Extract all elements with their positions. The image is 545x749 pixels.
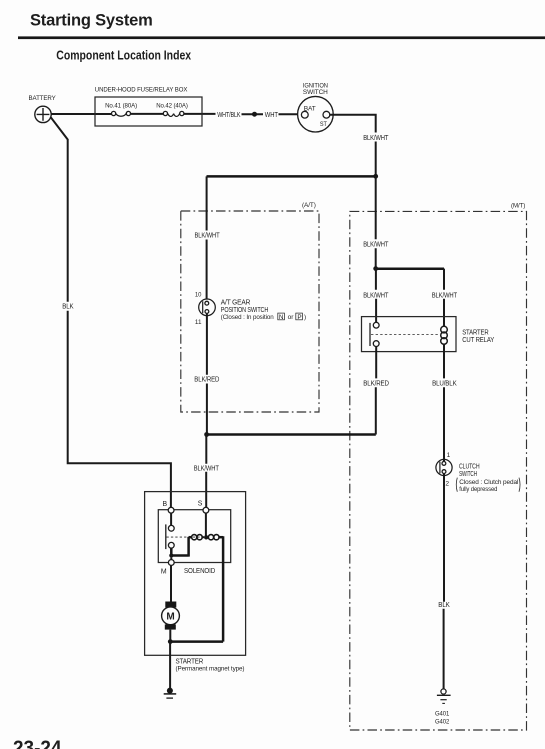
label A/T GEAR POSITION SWITCH — [221, 300, 306, 322]
page number 23-24 — [13, 738, 62, 749]
wire label BLK/WHT (S wire) — [194, 465, 220, 472]
svg-text:BAT: BAT — [304, 105, 316, 112]
svg-text:BLK/RED: BLK/RED — [363, 380, 389, 387]
junction node (A/T - M/T merge) — [204, 432, 209, 437]
title Starting System — [30, 12, 153, 30]
wire label BLK/WHT (ignition drop) — [363, 135, 389, 142]
svg-text:(M/T): (M/T) — [511, 203, 525, 210]
svg-text:G402: G402 — [435, 719, 450, 726]
svg-text:M: M — [161, 568, 167, 575]
wire B terminal to contact — [170, 513, 172, 525]
wire M/T main drop (BLK/WHT) — [375, 176, 377, 268]
fuse No.42 (40A) — [156, 103, 188, 117]
svg-text:SWITCH: SWITCH — [303, 89, 328, 96]
wire label BLK/WHT (A/T top) — [195, 232, 221, 239]
svg-text:P: P — [297, 314, 301, 321]
M/T dashed box — [350, 203, 527, 730]
svg-text:2: 2 — [445, 481, 449, 488]
svg-text:(Closed : In position: (Closed : In position — [221, 314, 274, 321]
svg-text:No.42 (40A): No.42 (40A) — [156, 103, 188, 110]
svg-text:1: 1 — [447, 452, 451, 459]
svg-text:10: 10 — [195, 292, 202, 299]
junction node (ST branch) — [373, 174, 378, 179]
wire label BLK (left) — [62, 304, 74, 311]
starter ground — [164, 688, 177, 699]
wire M terminal stub — [170, 558, 172, 560]
wire A/T switch to junction (BLK/RED) — [206, 313, 208, 434]
svg-text:BLK: BLK — [62, 304, 74, 311]
svg-text:UNDER-HOOD FUSE/RELAY BOX: UNDER-HOOD FUSE/RELAY BOX — [95, 86, 188, 93]
wire label BLK/WHT (relay left) — [363, 293, 389, 300]
svg-text:A/T GEAR: A/T GEAR — [221, 300, 251, 307]
svg-text:B: B — [163, 501, 168, 508]
subtitle Component Location Index — [56, 47, 191, 62]
wire A/T branch down (BLK/WHT) — [206, 176, 208, 299]
svg-text:M: M — [166, 612, 174, 623]
svg-text:No.41 (80A): No.41 (80A) — [105, 103, 137, 110]
ground G401/G402 — [435, 689, 451, 726]
svg-text:(Permanent magnet type): (Permanent magnet type) — [176, 666, 245, 673]
wire junction to A/T branch — [207, 175, 376, 178]
junction dot WHT — [252, 112, 257, 117]
solenoid coil 1 — [189, 535, 204, 540]
junction node (M branch) — [169, 553, 173, 557]
wire ST to junction (BLK/WHT) — [330, 115, 376, 177]
svg-text:WHT/BLK: WHT/BLK — [217, 112, 241, 119]
A/T gear position switch — [195, 292, 215, 327]
junction node (solenoid S/coil) — [204, 535, 208, 539]
svg-text:or: or — [288, 314, 295, 321]
svg-text:BLK/WHT: BLK/WHT — [195, 232, 221, 239]
wire battery to fuse box (WHT/BLK run) — [51, 113, 298, 115]
svg-text:WHT: WHT — [265, 112, 279, 119]
svg-text:STARTER: STARTER — [176, 659, 204, 666]
wire relay contact feed (BLK/WHT left) — [375, 269, 377, 323]
under-hood fuse/relay box — [95, 86, 202, 126]
junction node (motor/coil return) — [168, 639, 173, 644]
motor brush bottom — [165, 624, 176, 629]
clutch switch — [436, 452, 452, 488]
wire label BLK (M/T) — [438, 602, 450, 609]
terminal M — [161, 560, 174, 576]
wire label WHT/BLK — [217, 112, 241, 119]
svg-text:ST: ST — [320, 121, 327, 128]
header rule — [18, 36, 545, 39]
label CLUTCH SWITCH — [456, 463, 520, 493]
svg-text:N: N — [279, 314, 284, 321]
wire battery BLK down left side — [50, 117, 170, 508]
wire relay coil to clutch switch (BLU/BLK) — [443, 344, 445, 461]
wire relay coil feed (BLK/WHT right) — [443, 269, 445, 327]
svg-text:BATTERY: BATTERY — [29, 95, 57, 102]
wire label BLU/BLK — [432, 380, 457, 387]
svg-text:SWITCH: SWITCH — [459, 471, 477, 478]
wire branch to relay coil — [376, 267, 444, 270]
svg-text:STARTER: STARTER — [462, 329, 489, 336]
fuse No.41 (80A) — [105, 103, 137, 117]
wire label BLK/WHT (relay right) — [432, 293, 458, 300]
svg-text:BLK/WHT: BLK/WHT — [363, 293, 389, 300]
wire relay to merge (BLK/RED) — [375, 347, 377, 435]
svg-text:BLK/WHT: BLK/WHT — [363, 135, 389, 142]
svg-text:BLU/BLK: BLU/BLK — [432, 380, 457, 387]
svg-text:(A/T): (A/T) — [302, 202, 316, 209]
svg-text:BLK/RED: BLK/RED — [194, 377, 219, 384]
svg-text:Component Location Index: Component Location Index — [56, 47, 191, 62]
terminal B — [163, 501, 175, 513]
svg-text:BLK: BLK — [438, 602, 450, 609]
wire contact to M terminal (thick L) — [170, 537, 188, 557]
wire to starter ground — [169, 642, 171, 689]
wire S terminal to coil junction — [205, 513, 207, 537]
svg-text:G401: G401 — [435, 711, 450, 718]
solenoid coil 2 — [208, 535, 223, 540]
terminal S — [198, 501, 209, 514]
wire merge to M/T BLK/RED — [207, 433, 376, 436]
wire clutch to ground (BLK) — [443, 474, 445, 689]
svg-text:): ) — [304, 314, 306, 321]
wire S drop (BLK/WHT) — [205, 435, 207, 508]
svg-text:SOLENOID: SOLENOID — [184, 568, 215, 575]
solenoid inner box — [158, 510, 230, 575]
wire M terminal to motor — [170, 565, 172, 601]
svg-text:S: S — [198, 501, 203, 508]
svg-text:BLK/WHT: BLK/WHT — [363, 241, 389, 248]
svg-text:Closed : Clutch pedal: Closed : Clutch pedal — [459, 479, 518, 486]
svg-text:23-24: 23-24 — [13, 738, 62, 749]
wire label WHT — [265, 112, 279, 119]
svg-text:BLK/WHT: BLK/WHT — [432, 293, 458, 300]
svg-text:11: 11 — [195, 319, 202, 326]
wire label BLK/RED — [194, 377, 219, 384]
starter outer box — [145, 492, 246, 673]
A/T dashed box — [181, 202, 319, 412]
starter cut relay — [362, 317, 495, 352]
wire label BLK/WHT (M/T main) — [363, 241, 389, 248]
svg-text:POSITION SWITCH: POSITION SWITCH — [221, 307, 269, 314]
svg-text:Starting System: Starting System — [30, 12, 153, 30]
battery — [29, 95, 57, 123]
wire motor to junction — [169, 630, 171, 642]
wire label BLK/RED (M/T) — [363, 380, 389, 387]
junction node (relay branch) — [373, 266, 378, 271]
starter motor M — [162, 607, 180, 625]
motor brush top — [165, 602, 176, 608]
solenoid contact — [166, 524, 204, 549]
svg-text:CLUTCH: CLUTCH — [459, 463, 480, 470]
svg-text:CUT RELAY: CUT RELAY — [462, 337, 494, 344]
svg-text:fully depressed: fully depressed — [459, 486, 497, 493]
ignition switch — [298, 82, 334, 132]
svg-text:BLK/WHT: BLK/WHT — [194, 465, 220, 472]
wire coil return (right side down) — [170, 536, 223, 641]
